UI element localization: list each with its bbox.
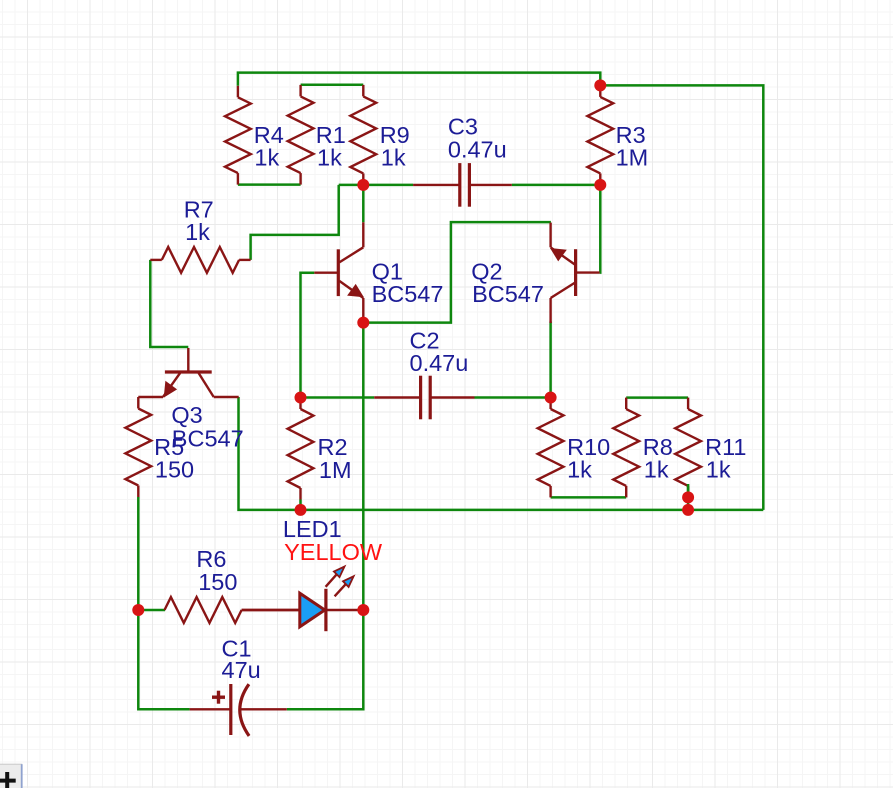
svg-text:47u: 47u — [222, 657, 261, 683]
wire R2 bottom stub — [299, 500, 302, 510]
wire R10-R8 bottom — [551, 496, 627, 499]
resistor R1 — [288, 85, 314, 185]
wire C1 to LED right — [287, 610, 364, 709]
svg-text:0.47u: 0.47u — [448, 136, 507, 162]
node junction R3 bottom — [594, 179, 606, 191]
wire C2 to R10 top — [475, 396, 551, 399]
wire Q1 emitter down to LED — [362, 323, 365, 610]
wire R7 left to Q3 base — [150, 260, 188, 347]
resistor R11 — [675, 398, 701, 498]
wire node mid left — [339, 184, 413, 187]
C1 plus sign — [212, 691, 225, 704]
transistor Q1 — [314, 222, 364, 322]
node junction R11 bottom — [682, 491, 694, 503]
node junction R2 top — [295, 392, 307, 404]
resistor R2 — [288, 398, 314, 500]
wire R4-R1 bottom — [238, 183, 301, 186]
wire R8-R11 top bridge — [626, 396, 688, 399]
svg-text:1k: 1k — [185, 219, 210, 245]
capacitor C3 — [413, 163, 512, 207]
node junction R6 left — [132, 604, 144, 616]
node junction Q1 emitter — [357, 317, 369, 329]
wire bottom left to C1 — [138, 610, 189, 709]
capacitor C1 — [190, 684, 287, 736]
wire R6 left — [138, 609, 165, 612]
svg-text:BC547: BC547 — [372, 281, 444, 307]
wire node to Q1 collector — [362, 185, 365, 222]
svg-text:1M: 1M — [319, 457, 352, 483]
wire top rail — [238, 73, 600, 86]
wire node to R7 right — [251, 185, 339, 260]
LED LED1 — [242, 589, 364, 631]
svg-text:1k: 1k — [706, 457, 731, 483]
svg-text:1k: 1k — [644, 457, 669, 483]
svg-text:YELLOW: YELLOW — [284, 539, 383, 565]
wire bottom rail to Q3 collector — [239, 397, 764, 510]
wire R3 bottom to Q2 base — [598, 185, 601, 273]
wire Q1 emitter to Q2 emitter — [363, 222, 551, 323]
zoom control button bottom-left — [0, 764, 23, 788]
wire R11 bottom to rail — [687, 487, 690, 510]
wire Q1 base to R2 top — [301, 273, 315, 398]
svg-text:1M: 1M — [616, 144, 649, 170]
wire Q2 collector to R10 top — [549, 322, 552, 398]
node junction R9 bottom — [357, 179, 369, 191]
svg-text:1k: 1k — [317, 144, 342, 170]
svg-text:Q3: Q3 — [171, 402, 202, 428]
node junction top-right — [594, 79, 606, 91]
transistor Q3 — [138, 348, 238, 398]
resistor R8 — [613, 398, 639, 498]
svg-text:1k: 1k — [254, 144, 279, 170]
node junction LED right — [357, 604, 369, 616]
wire R11 bottom green overlay — [687, 484, 690, 497]
resistor R6 — [165, 597, 300, 623]
svg-text:0.47u: 0.47u — [410, 350, 469, 376]
svg-text:1k: 1k — [381, 144, 406, 170]
capacitor C2 — [374, 376, 474, 420]
svg-text:LED1: LED1 — [283, 516, 342, 542]
wire C3 to R3 — [512, 184, 601, 187]
node junction rail — [682, 504, 694, 516]
wire R1-R9 top bridge — [301, 83, 364, 86]
svg-text:1k: 1k — [567, 457, 592, 483]
resistor R7 — [150, 247, 250, 273]
svg-text:150: 150 — [198, 569, 237, 595]
svg-text:BC547: BC547 — [472, 281, 544, 307]
resistor R5 — [125, 397, 151, 497]
LED1 light arrow 1 — [326, 567, 345, 587]
resistor R3 — [587, 85, 613, 184]
wire R2 top to C2 — [301, 396, 375, 399]
resistor R4 — [225, 86, 251, 185]
resistor R10 — [538, 398, 564, 498]
svg-text:150: 150 — [155, 457, 194, 483]
transistor Q2 — [550, 223, 600, 323]
wire R5 bottom to R6 — [137, 497, 140, 610]
node junction R2 bottom — [295, 504, 307, 516]
wire right rail — [600, 85, 763, 510]
LED1 light arrow 2 — [335, 576, 354, 596]
resistor R9 — [350, 85, 376, 185]
node junction R10 top — [545, 392, 557, 404]
